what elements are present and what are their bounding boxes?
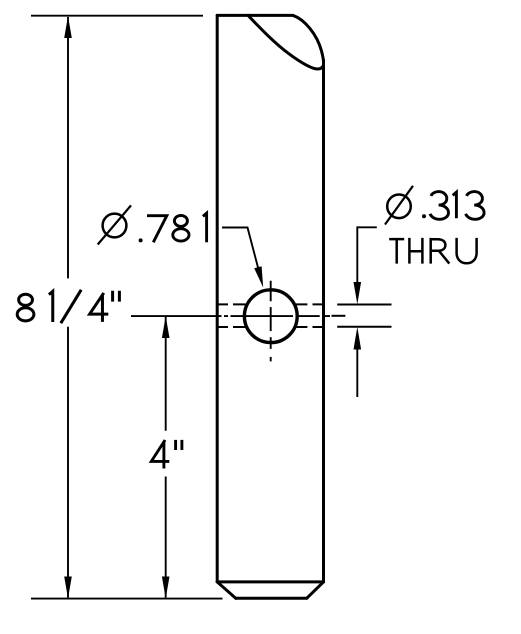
top edge [217, 14, 293, 17]
digit 8 [19, 294, 33, 305]
text .313 [422, 192, 484, 220]
outer curve of angled cut [293, 15, 324, 62]
digit 7 [147, 216, 167, 243]
U [457, 238, 477, 263]
slash [61, 290, 81, 323]
digit 8 [174, 215, 187, 226]
text 8 1/4 inch [17, 290, 119, 323]
centerline stub right [332, 315, 346, 317]
R [431, 238, 450, 264]
H [409, 238, 422, 264]
T [389, 239, 404, 264]
top extension line [31, 15, 203, 17]
inch quotes [113, 291, 120, 302]
period [422, 214, 426, 218]
bottom right chamfer [307, 582, 324, 598]
chamfer shoulder line [217, 580, 323, 583]
D.313 extension line top [337, 304, 391, 306]
leader arrowhead [254, 266, 263, 287]
diameter symbol for .313 [387, 195, 411, 219]
leader for D.781 [222, 228, 258, 270]
dimension line 8 1/4 [67, 17, 69, 278]
digit 3 [466, 192, 485, 220]
digit 4 [90, 293, 109, 322]
D.313 bottom arrow [356, 349, 358, 397]
diameter symbol for .781 [103, 214, 127, 238]
arrowhead up (8 1/4 top) [64, 16, 72, 38]
period [139, 238, 143, 242]
text .781 [139, 213, 207, 242]
D.313 extension line bottom [337, 326, 391, 328]
arrowhead down (8 1/4 bottom) [64, 577, 72, 599]
arrowhead up (4 top) [162, 316, 170, 338]
right edge [322, 60, 325, 582]
digit 3 [430, 192, 449, 220]
digit 1 [49, 291, 53, 322]
bottom left chamfer [217, 582, 236, 598]
bottom edge [236, 597, 307, 600]
horizontal centerline of hole [131, 315, 330, 317]
arrowhead down (4 bottom) [162, 577, 170, 599]
hidden line: small hole bottom edge [217, 326, 245, 328]
vertical centerline of hole [270, 281, 272, 362]
digit 1 [453, 192, 457, 218]
D.313 leader: top arrow [357, 227, 377, 284]
bottom extension line [31, 598, 223, 600]
elliptical edge of angled cut [248, 15, 323, 69]
text THRU [389, 238, 476, 264]
hole circle D.781 [244, 290, 297, 343]
part outline: round bar side view [217, 15, 323, 598]
digit 4 [151, 440, 169, 469]
dimension line 4 [165, 317, 167, 431]
digit 1 [203, 213, 207, 242]
text 4 inch [151, 440, 182, 469]
hidden line: small hole top edge [217, 303, 245, 305]
inch quotes [176, 440, 182, 450]
left edge [216, 15, 219, 582]
